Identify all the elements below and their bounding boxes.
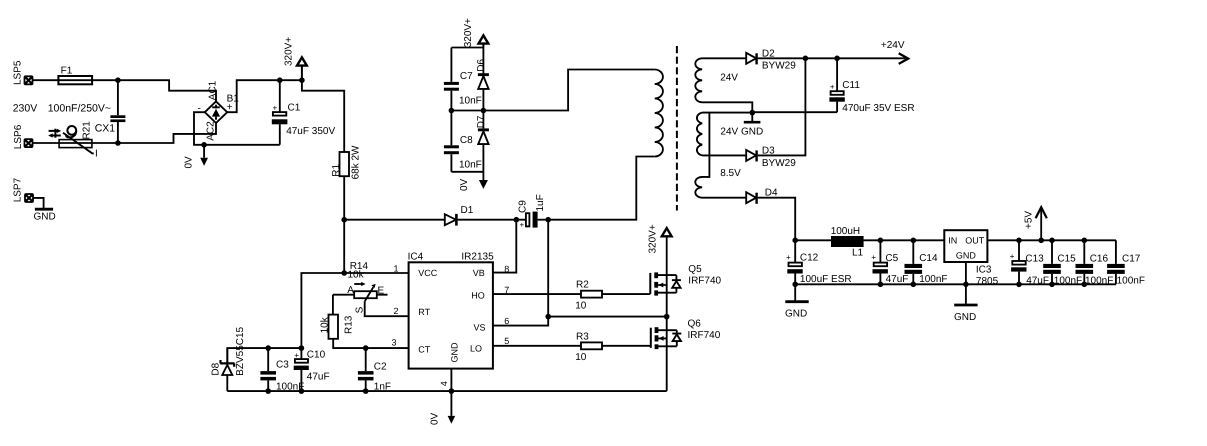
svg-text:C10: C10 xyxy=(307,350,326,361)
supply arrow 0V (bridge) xyxy=(184,145,209,169)
svg-text:C5: C5 xyxy=(885,253,898,264)
svg-text:47uF 350V: 47uF 350V xyxy=(286,126,335,137)
svg-text:HO: HO xyxy=(471,290,485,300)
svg-text:I: I xyxy=(95,148,98,159)
svg-text:0V: 0V xyxy=(184,156,195,169)
svg-text:BYW29: BYW29 xyxy=(762,61,796,72)
svg-text:A: A xyxy=(347,285,354,296)
wire bridge plus to 320V rail xyxy=(227,80,302,112)
svg-text:24V GND: 24V GND xyxy=(720,127,763,138)
resistor R1 xyxy=(331,145,361,179)
wire 0V bottom rail xyxy=(227,390,666,392)
node +5V arrow xyxy=(1038,238,1044,244)
svg-text:C17: C17 xyxy=(1122,253,1141,264)
svg-text:C7: C7 xyxy=(460,71,473,82)
transistor Q5 xyxy=(650,264,721,296)
supply arrow +24V xyxy=(881,40,908,64)
transformer primary winding xyxy=(655,70,663,157)
node C10 bottom xyxy=(299,388,305,394)
supply arrow 0V (pin 4) xyxy=(429,391,455,425)
node 320V arrow xyxy=(299,77,305,83)
diode D3 xyxy=(746,146,796,169)
supply arrow 0V (snubber) xyxy=(459,172,488,191)
wire IC3 GND pin xyxy=(965,262,967,304)
capacitor C16 xyxy=(1076,240,1114,286)
svg-text:320V+: 320V+ xyxy=(463,18,474,47)
wire analog ground rail xyxy=(795,283,966,285)
trimmer R14 xyxy=(333,282,388,314)
node C16 top xyxy=(1082,238,1088,244)
wire R13 to pin 3 xyxy=(333,339,408,348)
node C13 top xyxy=(1016,238,1022,244)
wire Q6 source to 0V rail xyxy=(666,346,668,391)
node C3 bottom xyxy=(265,388,271,394)
wire VCC to C10 xyxy=(301,273,344,348)
svg-text:GND: GND xyxy=(34,211,56,222)
wire node to VCC node xyxy=(343,220,345,273)
node C15 top xyxy=(1049,238,1055,244)
wire VS to MOSFET midpoint xyxy=(548,316,667,318)
resistor R3 xyxy=(575,331,602,363)
wire bridge minus to 0V rail xyxy=(194,112,280,145)
wire VB riser pin 8 xyxy=(493,220,516,273)
svg-text:320V+: 320V+ xyxy=(647,224,658,253)
node C1 top xyxy=(277,77,283,83)
svg-text:4: 4 xyxy=(439,381,449,386)
wire L1 rail left xyxy=(795,239,831,241)
svg-text:7805: 7805 xyxy=(976,276,999,287)
node VCC pin1 xyxy=(341,270,347,276)
capacitor C15 xyxy=(1043,240,1082,286)
wire LSP6 to R21 xyxy=(33,142,59,144)
capacitor C14 xyxy=(905,240,948,285)
supply arrow +5V xyxy=(1024,207,1047,240)
svg-text:100uF ESR: 100uF ESR xyxy=(800,274,852,285)
inductor L1 xyxy=(831,226,864,258)
transformer secondary winding 24V (lower) xyxy=(697,113,752,156)
ground GND (IC3) xyxy=(954,305,978,323)
ground GND (C12) xyxy=(785,284,809,319)
svg-text:10nF: 10nF xyxy=(459,159,482,170)
svg-text:AC1: AC1 xyxy=(207,80,218,100)
svg-text:R3: R3 xyxy=(576,331,589,342)
svg-text:LSP7: LSP7 xyxy=(12,177,23,202)
transformer secondary winding 24V (upper) xyxy=(695,58,752,112)
svg-text:IRF740: IRF740 xyxy=(688,276,721,287)
svg-text:LO: LO xyxy=(470,343,482,353)
supply arrow 320V+ (Q5 drain) xyxy=(647,224,671,275)
bridge rectifier B1 xyxy=(198,80,240,140)
wire R2 to Q5 gate xyxy=(602,293,650,295)
wire snubber mid rail to transformer xyxy=(451,70,654,111)
wire Q5 source to VS node xyxy=(666,293,668,317)
svg-text:0V: 0V xyxy=(459,178,470,191)
wire 320V node to D1 xyxy=(344,219,445,221)
svg-text:OUT: OUT xyxy=(965,236,985,246)
node pin 4 xyxy=(449,388,455,394)
svg-text:+: + xyxy=(830,83,835,92)
wire C11 bottom to 24V GND xyxy=(752,111,837,113)
svg-text:D1: D1 xyxy=(461,205,474,216)
svg-text:100nF: 100nF xyxy=(919,274,947,285)
node C13 bottom xyxy=(1016,282,1022,288)
terminal LSP6 xyxy=(13,124,34,149)
wire pin 6 jog xyxy=(493,317,548,326)
svg-text:C1: C1 xyxy=(288,103,301,114)
capacitor C9 xyxy=(518,194,549,229)
svg-text:230V: 230V xyxy=(13,103,38,115)
wire D3 to +24V rail xyxy=(758,58,806,155)
svg-text:47uF: 47uF xyxy=(886,274,909,285)
svg-text:100nF/250V~: 100nF/250V~ xyxy=(48,103,111,115)
svg-text:1: 1 xyxy=(393,263,398,273)
wire 320V rail to R1 xyxy=(302,80,344,152)
diode D7 xyxy=(476,111,489,172)
supply arrow 320V+ (snubber) xyxy=(463,18,489,48)
svg-text:3: 3 xyxy=(391,337,396,347)
node C10 top xyxy=(299,345,305,351)
svg-text:2: 2 xyxy=(393,306,398,316)
node C12 bottom xyxy=(792,282,798,288)
svg-text:AC2: AC2 xyxy=(206,121,217,141)
wire snubber bottom rail xyxy=(451,171,483,173)
svg-text:C9: C9 xyxy=(518,200,529,213)
capacitor C5 xyxy=(871,240,908,285)
node C11 top xyxy=(834,56,840,62)
resistor R2 xyxy=(575,280,602,312)
svg-text:E: E xyxy=(378,285,385,296)
wire LSP6 to AC2 xyxy=(92,123,216,143)
svg-text:C11: C11 xyxy=(842,80,860,91)
wire R1 to D1 node xyxy=(343,176,345,220)
capacitor C7 xyxy=(444,48,482,111)
diode D4 xyxy=(746,188,778,204)
node C5 top xyxy=(878,238,884,244)
svg-text:IC3: IC3 xyxy=(976,265,992,276)
ground LSP7 GND xyxy=(34,198,56,223)
node C14 bottom xyxy=(911,282,917,288)
wire pin 4 GND xyxy=(450,369,452,392)
wire L1 to IC3 IN xyxy=(864,239,945,241)
svg-text:+: + xyxy=(520,221,525,230)
svg-text:100nF: 100nF xyxy=(1117,275,1145,286)
svg-text:+5V: +5V xyxy=(1024,211,1035,229)
resistor R13 xyxy=(320,315,355,339)
svg-text:0V: 0V xyxy=(429,412,440,425)
wire Q6 drain to VS node xyxy=(666,317,668,331)
wire pin 1 VCC xyxy=(344,272,408,274)
node IC3 gnd rail xyxy=(963,282,969,288)
svg-text:+: + xyxy=(294,351,299,360)
svg-text:IC4: IC4 xyxy=(408,252,424,263)
wire pin 5 to R3 xyxy=(493,345,581,347)
ground 24V GND xyxy=(720,110,763,138)
svg-text:GND: GND xyxy=(785,309,807,320)
wire VCC cap rail xyxy=(227,348,301,362)
svg-text:F1: F1 xyxy=(61,65,73,76)
diode D1 xyxy=(445,205,474,226)
svg-text:1uF: 1uF xyxy=(535,194,546,211)
svg-text:C3: C3 xyxy=(276,359,289,370)
svg-text:68k 2W: 68k 2W xyxy=(351,145,362,179)
wire D4 to L1 rail xyxy=(758,198,795,241)
svg-text:+: + xyxy=(871,253,876,262)
node C2 top xyxy=(363,345,369,351)
node C2 bottom xyxy=(363,388,369,394)
node C9 right / VS riser xyxy=(545,217,551,223)
svg-text:+24V: +24V xyxy=(881,40,905,51)
svg-text:10: 10 xyxy=(575,301,587,312)
node C14 top xyxy=(911,238,917,244)
wire C9 to transformer primary bottom xyxy=(548,157,655,220)
node 0V arrow xyxy=(201,142,207,148)
wire IC3 OUT rail xyxy=(987,239,1116,241)
svg-text:6: 6 xyxy=(504,316,509,326)
svg-text:R1: R1 xyxy=(331,163,342,176)
wire R14 A to R13 xyxy=(332,295,334,315)
svg-text:Q6: Q6 xyxy=(688,318,702,329)
svg-text:RT: RT xyxy=(418,307,430,317)
svg-text:C2: C2 xyxy=(374,361,387,372)
capacitor C3 xyxy=(260,348,304,392)
svg-text:10: 10 xyxy=(575,352,587,363)
terminal LSP7 xyxy=(12,177,34,203)
zener diode D8 xyxy=(210,326,246,391)
IC op-amp driver U IC4 IR2135 box xyxy=(408,252,494,369)
node C15 bottom xyxy=(1049,282,1055,288)
svg-text:VCC: VCC xyxy=(418,268,438,278)
capacitor C1 xyxy=(272,80,336,145)
svg-text:VS: VS xyxy=(473,322,485,332)
node R1/D1 xyxy=(341,217,347,223)
wire F1 to AC1 (phase) xyxy=(92,80,216,101)
node VS jog xyxy=(545,314,551,320)
svg-text:S: S xyxy=(354,306,365,313)
svg-text:R2: R2 xyxy=(576,280,589,291)
svg-text:47uF: 47uF xyxy=(307,372,330,383)
svg-text:C15: C15 xyxy=(1057,253,1076,264)
svg-text:10k: 10k xyxy=(320,316,331,333)
svg-text:24V: 24V xyxy=(720,73,738,84)
node VB riser xyxy=(514,217,520,223)
svg-text:IRF740: IRF740 xyxy=(688,330,721,341)
svg-text:R13: R13 xyxy=(344,315,355,334)
capacitor C2 xyxy=(358,348,391,392)
svg-text:GND: GND xyxy=(956,251,977,261)
capacitor C10 xyxy=(294,348,330,391)
svg-text:8.5V: 8.5V xyxy=(720,168,741,179)
node VS midpoint xyxy=(664,314,670,320)
wire R3 to Q6 gate xyxy=(602,345,651,347)
wire pin 7 to R2 xyxy=(493,293,581,295)
capacitor CX1 xyxy=(95,80,126,143)
svg-text:D7: D7 xyxy=(476,115,487,128)
svg-text:C12: C12 xyxy=(800,253,819,264)
svg-text:100uH: 100uH xyxy=(831,226,860,237)
node D3 riser top xyxy=(803,56,809,62)
svg-text:IN: IN xyxy=(948,236,957,246)
svg-text:VB: VB xyxy=(473,268,485,278)
svg-text:GND: GND xyxy=(450,342,460,363)
transistor Q6 xyxy=(651,318,721,349)
svg-text:5: 5 xyxy=(504,336,509,346)
diode D2 xyxy=(746,49,796,72)
wire LSP5 to fuse xyxy=(33,79,59,81)
voltage regulator IC3 7805 xyxy=(944,230,998,287)
capacitor C17 xyxy=(1107,240,1145,286)
svg-text:CT: CT xyxy=(418,345,430,355)
diode D6 xyxy=(476,48,489,111)
supply arrow 320V+ (C1 rail) xyxy=(283,37,307,81)
svg-text:C8: C8 xyxy=(460,135,473,146)
node C12 top xyxy=(792,238,798,244)
transformer secondary winding 8.5V xyxy=(695,113,746,198)
transformer core xyxy=(676,46,678,211)
capacitor C13 xyxy=(1010,240,1049,286)
svg-text:Q5: Q5 xyxy=(688,264,702,275)
svg-text:R21: R21 xyxy=(82,121,93,140)
varistor R21 xyxy=(48,121,98,160)
svg-text:C16: C16 xyxy=(1090,253,1109,264)
fuse F1 xyxy=(58,65,92,84)
wire R14 wiper to pin 2 xyxy=(365,301,409,316)
node C3 top xyxy=(265,345,271,351)
terminal LSP5 xyxy=(12,60,33,85)
svg-text:320V+: 320V+ xyxy=(283,37,294,66)
svg-text:+: + xyxy=(1010,252,1015,261)
node C5 bottom xyxy=(878,282,884,288)
svg-text:LSP5: LSP5 xyxy=(12,60,23,85)
node CX1 bottom xyxy=(115,140,121,146)
svg-text:BYW29: BYW29 xyxy=(762,158,796,169)
capacitor C12 xyxy=(786,240,852,285)
svg-text:C14: C14 xyxy=(919,253,938,264)
svg-text:IR2135: IR2135 xyxy=(461,252,494,263)
wire snubber top rail xyxy=(451,47,483,49)
svg-text:D8: D8 xyxy=(210,362,221,375)
svg-text:LSP6: LSP6 xyxy=(13,124,24,149)
wire D1 to C9 xyxy=(458,219,526,221)
svg-text:GND: GND xyxy=(954,312,976,323)
svg-text:+: + xyxy=(786,253,791,262)
node snubber mid right xyxy=(481,108,487,114)
node C16 bottom xyxy=(1082,282,1088,288)
svg-text:10k: 10k xyxy=(348,270,365,281)
node snubber mid left xyxy=(449,108,455,114)
svg-text:CX1: CX1 xyxy=(95,123,116,135)
capacitor C11 xyxy=(829,58,914,114)
svg-text:L1: L1 xyxy=(852,248,864,259)
svg-text:+: + xyxy=(273,104,278,113)
svg-text:BZV55C15: BZV55C15 xyxy=(235,326,246,375)
node CX1 top xyxy=(115,77,121,83)
wire D2 to +24V rail xyxy=(758,57,901,59)
svg-text:470uF 35V ESR: 470uF 35V ESR xyxy=(842,103,914,114)
svg-text:D6: D6 xyxy=(476,59,487,72)
wire VS riser xyxy=(547,220,549,317)
svg-text:8: 8 xyxy=(504,264,509,274)
wire +5V ground rail xyxy=(966,283,1116,285)
svg-text:C13: C13 xyxy=(1025,253,1044,264)
capacitor C8 xyxy=(444,111,482,172)
svg-text:10nF: 10nF xyxy=(459,96,482,107)
